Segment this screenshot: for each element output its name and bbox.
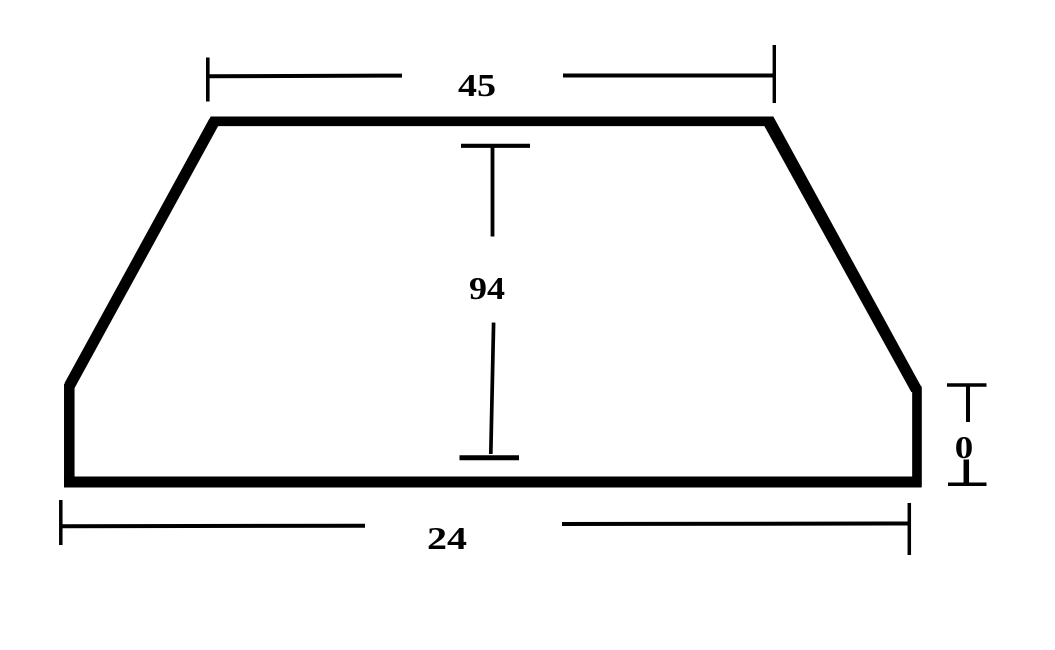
svg-text:45: 45	[458, 68, 496, 103]
trapezoid right slanted edge	[769, 122, 917, 390]
height dimension lower line	[491, 323, 494, 454]
svg-text:94: 94	[469, 271, 505, 306]
height dimension top tick	[461, 144, 530, 148]
trapezoid left vertical edge	[64, 384, 75, 481]
height dimension upper line	[491, 146, 495, 237]
bottom dimension right tick	[908, 503, 912, 555]
top dimension right line	[563, 74, 774, 78]
top dimension left tick	[206, 58, 210, 102]
top dimension right tick	[773, 45, 776, 103]
right dimension top tick	[947, 383, 987, 387]
height dimension bottom tick	[460, 455, 520, 460]
bottom dimension left line	[61, 524, 365, 529]
svg-text:24: 24	[427, 521, 467, 556]
bottom dimension left tick	[59, 500, 63, 545]
right dimension bottom tick	[948, 483, 987, 487]
trapezoid bottom edge (thicker)	[64, 477, 922, 488]
trapezoid left slanted edge	[69, 122, 214, 386]
bottom dimension right line	[562, 522, 909, 527]
right dimension upper line	[966, 387, 970, 423]
right dimension lower line	[964, 460, 970, 487]
trapezoid cross-section outline	[69, 121, 917, 482]
top dimension left line	[208, 74, 402, 79]
trapezoid right vertical edge	[912, 386, 921, 481]
